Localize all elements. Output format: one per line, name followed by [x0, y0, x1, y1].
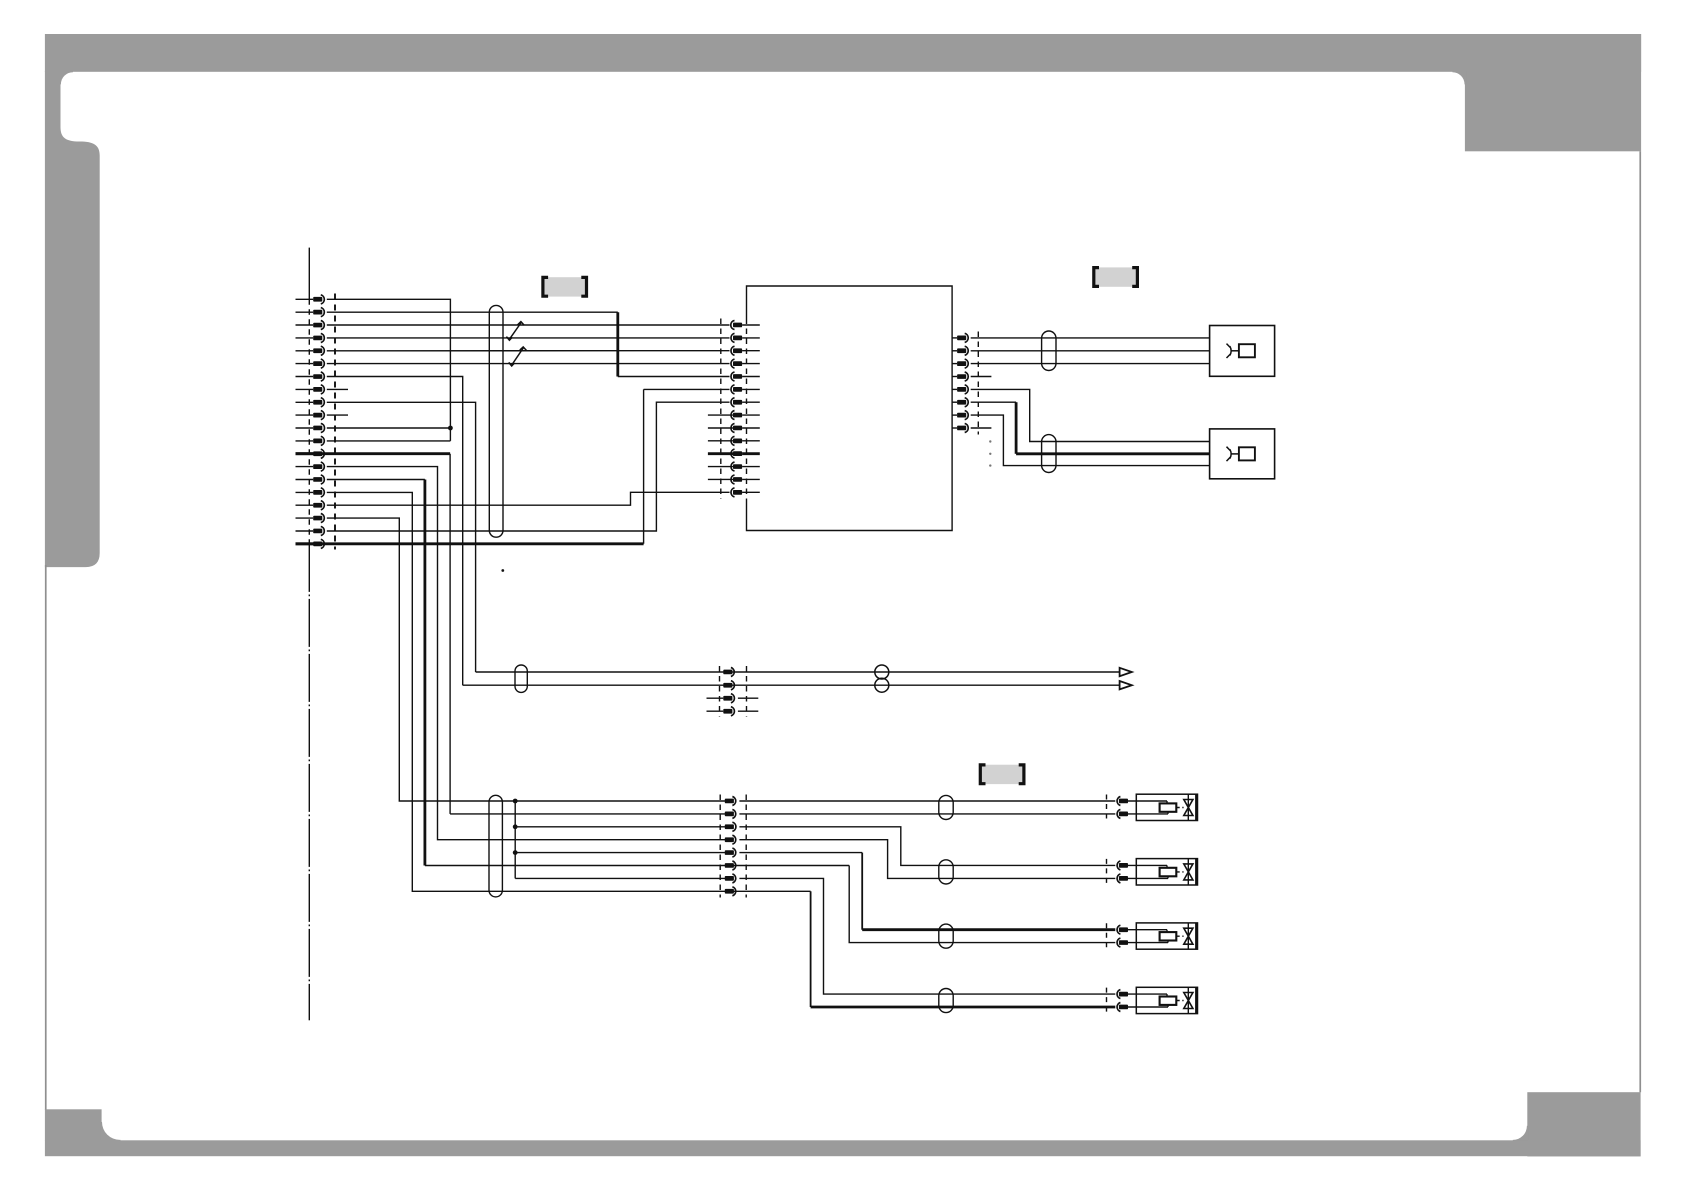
grommet circles on arrow net [875, 665, 889, 679]
wire: CN1 pin8 stub [327, 388, 348, 390]
cable clamp: solenoid Y4 [939, 989, 953, 1013]
connector CN5 pin 7 [725, 876, 734, 881]
connector: solenoid Y4 pin2 [1119, 1005, 1128, 1010]
switch S1 [506, 322, 524, 341]
connector CN2 pin 9 [708, 427, 733, 429]
connector CN4 dashed boundaries [719, 666, 721, 717]
connector CN3 pin 5 [952, 388, 957, 390]
wire: bottom row7 [515, 877, 729, 879]
node: stray junction dot [501, 569, 504, 572]
connector CN1 pin 8 [296, 388, 314, 390]
wire: row3 to solenoid Y2 coil+ [739, 827, 1115, 866]
cable clamp: arrow pair [515, 665, 527, 692]
connector: solenoid Y4 dashed boundary [1106, 988, 1108, 1014]
connector CN2 pin 1 [733, 323, 742, 328]
component B1 (sensor) [1210, 326, 1275, 377]
cable clamp: valve B1 harness [1042, 331, 1056, 371]
connector CN1 pin 4 [296, 337, 314, 339]
connector CN4 pin 2 [723, 683, 732, 688]
wire: CN1 pin7 down to arrow net B [327, 377, 463, 686]
connector CN1 pin 19 [296, 530, 314, 532]
connector: solenoid Y1 pin2 [1119, 812, 1128, 817]
node: hidden wire dots [989, 440, 991, 442]
connector: solenoid Y3 pin1 [1119, 927, 1128, 932]
connector CN1 pin 2 [296, 311, 314, 313]
connector CN2 pin 4 [733, 361, 742, 366]
connector CN1 pin 12 [296, 440, 314, 442]
connector CN1 pin 13 [296, 452, 314, 455]
connector CN1 pin 15 [296, 479, 314, 481]
solenoid valve Y2 [1136, 859, 1197, 885]
connector CN5 pin 8 [725, 889, 734, 894]
connector CN5 pin 1 [725, 799, 734, 804]
connector: solenoid Y1 dashed boundary [1106, 795, 1108, 821]
connector CN2 pin 5 [733, 374, 742, 379]
arrow head B [1120, 681, 1132, 689]
wire: CN3 pin8 stub [971, 427, 992, 429]
connector CN1 pin 11 [296, 427, 314, 429]
connector CN1 pin 17 [296, 504, 314, 506]
connector CN2 dashed boundaries [720, 319, 722, 500]
wire: row7 to solenoid Y4 coil+ [739, 878, 1115, 994]
wire: row4 to solenoid Y2 coil- [739, 840, 1115, 879]
wire: CN3 pin3 to valve B1 [971, 363, 1210, 365]
wire: CN1 pin4 to CN2 pin2 [327, 337, 730, 339]
cable clamp: solenoid harness [489, 795, 502, 897]
connector CN3 dashed boundary [977, 332, 979, 435]
connector CN1 pin 14 [296, 466, 314, 468]
component B2 (sensor) [1210, 429, 1275, 479]
connector CN4 pin 4 [723, 709, 732, 714]
connector CN5 dashed boundaries [719, 795, 721, 898]
wire: CN3 pin4 stub [971, 376, 992, 378]
connector CN1 dashed boundary [334, 294, 336, 550]
wire: CN1 pin20 bold to CN2 pin6 [296, 542, 644, 545]
connector CN1 pin 1 [296, 298, 314, 300]
connector CN1 pin 18 [296, 517, 314, 519]
wire: bottom row3 [515, 826, 729, 828]
solenoid valve Y3 [1136, 923, 1197, 949]
wire: row5 to solenoid Y3 coil+ (bold) [739, 852, 862, 854]
wire: row6 to solenoid Y3 coil- [849, 866, 1115, 943]
connector CN3 pin 1 [952, 337, 957, 339]
wire: CN1 pin6 to CN2 pin4 [327, 363, 730, 365]
wire: solenoid Y1 pair [739, 800, 1115, 802]
wire: CN1 pin17 to CN2 pin14 [327, 492, 730, 505]
connector CN2 pin 7 [733, 400, 742, 405]
arrow head A [1120, 668, 1132, 676]
connector CN5 pin 4 [725, 837, 734, 842]
connector CN2 pin 6 [733, 387, 742, 392]
wire: CN3 pin2 to valve B1 [971, 350, 1210, 352]
wire: CN1 pin10 stub [327, 414, 348, 416]
connector CN2 pin 3 [733, 348, 742, 353]
connector CN3 pin 6 [952, 401, 957, 403]
PCB main board U1 [747, 286, 953, 531]
connector CN4 pin 3 [723, 696, 732, 701]
wire: CN1 pin13 bold feed to bottom row2 [296, 452, 451, 455]
connector CN5 pin 5 [725, 850, 734, 855]
connector CN1 pin 3 [296, 324, 314, 326]
connector CN2 pin 12 [708, 466, 733, 468]
cable clamp: solenoid Y1 [939, 795, 953, 819]
connector CN3 pin 3 [952, 363, 957, 365]
wire: CN1 pin12 row [327, 440, 451, 442]
connector CN2 pin 13 [708, 478, 733, 480]
connector CN3 pin 4 [952, 376, 957, 378]
wire: CN1 pin5 to CN2 pin3 [327, 350, 730, 352]
wire: CN1 pin14 feed to bottom row4 [327, 467, 730, 840]
connector CN3 pin 8 [952, 427, 957, 429]
connector: solenoid Y3 pin2 [1119, 940, 1128, 945]
connector: solenoid Y1 pin1 [1119, 799, 1128, 804]
wire: CN1 pin1 to bus vertical [327, 299, 451, 441]
wire: bottom bus (rows 1-3-5-7) [514, 801, 516, 878]
cable clamp: main harness [489, 305, 503, 537]
wire: CN1 pin3 to CN2 pin1 [327, 324, 730, 326]
solenoid valve Y4 [1136, 987, 1197, 1013]
connector CN2 pin 2 [733, 336, 742, 341]
connector: solenoid Y4 pin1 [1119, 992, 1128, 997]
connector CN5 pin 6 [725, 863, 734, 868]
wire: CN1 pin9 down to arrow net A [327, 402, 476, 672]
connector CN2 pin 8 [708, 414, 733, 416]
connector CN2 pin 11 [708, 452, 733, 455]
label L3 [981, 765, 1024, 784]
wire: CN3 pin7 to valve B2 [971, 415, 1210, 466]
connector CN5 pin 2 [725, 812, 734, 817]
connector CN1 pin 6 [296, 363, 314, 365]
connector CN2 pin 14 [733, 490, 742, 495]
wire: CN1 pin16 feed to bottom row8 [327, 492, 811, 891]
wire: CN1 pin18 feed to bottom row1 [327, 518, 730, 801]
connector CN4 pin 1 [723, 670, 732, 675]
wire: arrow net A (from CN1 pin9) [476, 671, 1120, 673]
connector: solenoid Y3 dashed boundary [1106, 923, 1108, 949]
connector: solenoid Y2 pin2 [1119, 876, 1128, 881]
connector: solenoid Y2 pin1 [1119, 863, 1128, 868]
wire: arrow net B (from CN1 pin7) [463, 684, 1120, 686]
junction: pin11 row joins bus [327, 427, 451, 429]
node: harness bus line left [308, 248, 310, 300]
wire: row8 to solenoid Y4 coil- (bold) [810, 891, 812, 1007]
label L1 [543, 277, 586, 296]
connector CN1 pin 10 [296, 414, 314, 416]
connector CN1 pin 7 [296, 376, 314, 378]
wire: CN1 pin19 to CN2 pin7 [327, 402, 730, 531]
connector CN1 pin 9 [296, 401, 314, 403]
connector CN1 pin 16 [296, 491, 314, 493]
cable clamp: solenoid Y3 [939, 924, 953, 948]
switch S2 [509, 347, 527, 366]
connector CN1 pin 20 [296, 542, 314, 545]
wire: CN1 pin2 to CN2 pin5 (bold riser) [327, 311, 618, 313]
connector CN3 pin 2 [952, 350, 957, 352]
wire: CN3 pin6 to valve B2 (bold) [971, 401, 1016, 403]
connector CN2 pin 10 [708, 440, 733, 442]
connector CN5 pin 3 [725, 824, 734, 829]
label L2 [1094, 267, 1137, 286]
cable clamp: valve B2 harness [1042, 435, 1056, 473]
wire: CN1 pin15 feed to bottom row6 (bold riser) [327, 479, 425, 481]
solenoid valve Y1 [1136, 794, 1197, 820]
cable clamp: solenoid Y2 [939, 860, 953, 884]
wire: CN3 pin5 to valve B2 [971, 389, 1210, 441]
connector CN1 pin 5 [296, 350, 314, 352]
connector CN3 pin 7 [952, 414, 957, 416]
wire: bottom row5 [515, 852, 729, 854]
wire: center dash-dot continuation line [308, 544, 310, 1020]
connector: solenoid Y2 dashed boundary [1106, 859, 1108, 885]
wire: CN3 pin1 to valve B1 [971, 337, 1210, 339]
